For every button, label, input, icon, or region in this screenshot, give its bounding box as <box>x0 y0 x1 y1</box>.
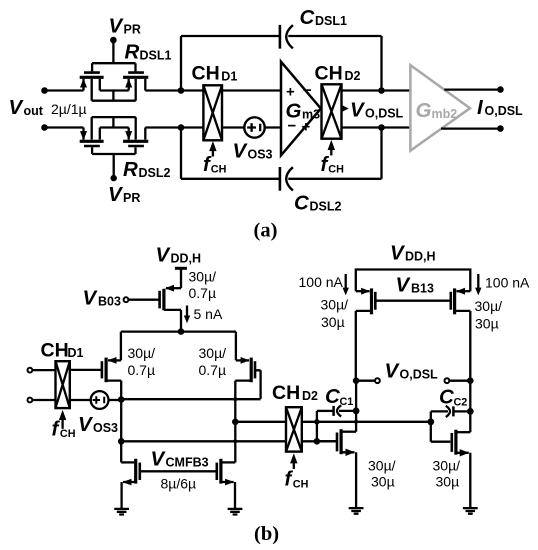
svg-text:30µ/: 30µ/ <box>321 297 349 313</box>
svg-text:(a): (a) <box>254 220 278 242</box>
node Vout terminal top <box>41 87 48 94</box>
node feedback junction bottom <box>378 124 385 131</box>
chopper CHD1 panel b <box>56 361 70 408</box>
node input terminal bottom panel b <box>28 398 56 403</box>
resistor RDSL1 pseudo-resistor transistor pair <box>80 63 149 100</box>
label VOS3 panel a <box>233 140 273 163</box>
label CC1 <box>325 385 353 408</box>
label M7b size 30u/30u <box>475 298 503 332</box>
svg-text:B03: B03 <box>98 295 121 309</box>
label RDSL2 <box>123 158 171 181</box>
wire left vertical to CMFB <box>120 400 122 463</box>
wire bottom input left segment <box>45 126 84 128</box>
wire Gmb2 out bottom <box>441 127 500 129</box>
capacitor CC1 <box>317 405 356 416</box>
svg-text:R: R <box>123 158 138 181</box>
svg-text:mb2: mb2 <box>432 107 458 121</box>
node VODSL left terminal <box>356 378 380 383</box>
label M8b size 30u/30u <box>433 458 461 490</box>
wire CC2 riser <box>430 411 432 441</box>
node CC1 riser bottom junction <box>314 438 321 445</box>
wire top PR middle node bracket <box>100 91 129 101</box>
wire bottom input right segment <box>145 126 203 128</box>
svg-text:CH: CH <box>41 340 69 362</box>
transistor M7a pmos 100nA left <box>356 288 376 381</box>
chopper CHD2 panel b <box>286 407 302 451</box>
svg-text:V: V <box>156 244 172 267</box>
node crossing bump lower <box>233 439 237 443</box>
svg-text:CH: CH <box>272 382 300 404</box>
svg-text:C1: C1 <box>340 396 354 408</box>
wire VOS3 to Gm3 <box>265 126 281 128</box>
node IODSL terminal bottom <box>497 125 504 132</box>
transistor MB03 pmos <box>128 285 181 332</box>
wire mid vertical <box>234 400 236 463</box>
node IODSL terminal top <box>497 86 504 93</box>
label VCMFB3 <box>151 448 209 471</box>
source VOS3 offset panel b <box>70 391 121 409</box>
svg-text:D2: D2 <box>302 389 318 403</box>
svg-text:C2: C2 <box>454 396 468 408</box>
label M3a size 30u/0.7u <box>128 345 156 378</box>
node CC2 long wire junction <box>427 418 434 425</box>
node CC1 right junction <box>353 408 360 415</box>
label CHD1 panel a <box>192 63 238 85</box>
svg-text:30µ: 30µ <box>371 474 395 490</box>
svg-text:+: + <box>286 84 295 101</box>
svg-text:V: V <box>396 274 412 297</box>
wire CC1 riser <box>316 411 318 441</box>
capacitor CDSL1 <box>280 25 293 49</box>
svg-text:V: V <box>109 15 125 38</box>
svg-text:(b): (b) <box>254 523 279 545</box>
transistor M8a nmos output left <box>317 429 356 507</box>
label M7a size 30u/30u <box>321 297 349 331</box>
wire CDSL1 left <box>181 35 279 37</box>
label VOS3 panel b <box>78 413 118 436</box>
wire top input right segment <box>145 89 203 91</box>
svg-text:100 nA: 100 nA <box>299 274 344 290</box>
label VDDH left <box>156 244 202 267</box>
wire CHD1 to Gm3 top <box>222 89 281 91</box>
transistor M5b nmos CMFB right <box>217 459 236 509</box>
ground M8a <box>349 508 364 514</box>
svg-text:V: V <box>390 242 406 265</box>
ground M8b <box>463 508 478 514</box>
wire tail rail <box>121 332 236 361</box>
wire feedback riser top <box>180 36 182 91</box>
wire VDDH rail right block <box>356 270 471 292</box>
label fCH arrow panel a right <box>321 140 345 176</box>
node output direction arrow <box>342 105 349 112</box>
svg-text:5 nA: 5 nA <box>194 306 223 322</box>
svg-text:2µ/1µ: 2µ/1µ <box>51 101 87 117</box>
svg-text:DD,H: DD,H <box>171 252 202 266</box>
svg-text:CMFB3: CMFB3 <box>166 456 209 470</box>
node VODSL left junction <box>353 377 360 384</box>
node feedback junction top <box>378 87 385 94</box>
wire CDSL1 right <box>288 36 381 91</box>
label CC2 <box>439 386 467 409</box>
label IODSL <box>477 96 523 119</box>
svg-text:DSL2: DSL2 <box>310 200 342 214</box>
op-amp Gmb2 gray <box>410 65 470 151</box>
svg-text:30µ/: 30µ/ <box>475 298 503 314</box>
svg-text:V: V <box>9 96 25 119</box>
ground CMFB left <box>114 509 129 515</box>
svg-text:DSL1: DSL1 <box>315 14 347 28</box>
wire right column down <box>469 381 471 433</box>
label 100nA left <box>299 274 349 295</box>
svg-text:DSL1: DSL1 <box>140 49 172 63</box>
svg-text:CH: CH <box>293 478 309 490</box>
label VODSL panel a <box>350 99 404 122</box>
label CDSL2 <box>294 192 342 215</box>
svg-text:O,DSL: O,DSL <box>400 368 439 382</box>
label fCH arrow panel b right <box>285 453 309 490</box>
svg-text:100 nA: 100 nA <box>485 275 530 291</box>
resistor RDSL2 pseudo-resistor transistor pair <box>80 117 149 154</box>
label VODSL panel b <box>385 360 439 383</box>
node left output junction <box>118 396 125 403</box>
svg-text:CH: CH <box>315 62 343 84</box>
node Vout terminal bottom <box>41 124 48 131</box>
transistor M3a pmos diff left <box>70 357 121 400</box>
node VODSL right junction <box>467 377 474 384</box>
svg-text:30µ/: 30µ/ <box>199 345 227 361</box>
svg-text:PR: PR <box>123 191 140 205</box>
svg-text:0.7µ: 0.7µ <box>189 285 217 301</box>
wire CHD2 out bottom <box>342 126 411 128</box>
wire bottom PR middle node bracket <box>100 117 129 127</box>
svg-text:30µ/: 30µ/ <box>189 269 217 285</box>
svg-text:V: V <box>78 413 94 436</box>
svg-text:V: V <box>151 448 167 471</box>
svg-text:C: C <box>294 192 310 215</box>
node CC1 riser top junction <box>314 419 319 424</box>
svg-text:V: V <box>108 183 124 206</box>
node input terminal top panel b <box>28 368 56 373</box>
wire CDSL2 right <box>288 128 381 179</box>
label VPR top <box>109 15 141 38</box>
transistor M8b nmos output right <box>431 430 471 508</box>
svg-text:m3: m3 <box>302 108 320 122</box>
svg-text:30µ: 30µ <box>321 314 345 330</box>
svg-text:30µ/: 30µ/ <box>368 458 396 474</box>
svg-text:DD,H: DD,H <box>405 250 436 264</box>
label fCH arrow panel a left <box>203 141 227 176</box>
ground CMFB right <box>228 509 243 515</box>
svg-text:V: V <box>83 287 99 310</box>
svg-text:30µ: 30µ <box>436 474 460 490</box>
chopper CHD1 panel a <box>203 85 222 140</box>
source VOS3 offset panel a <box>244 117 264 137</box>
wire feedback riser bottom <box>180 128 182 179</box>
svg-text:CH: CH <box>211 164 227 176</box>
svg-text:CH: CH <box>192 63 220 85</box>
wire VB13 gate <box>375 300 451 302</box>
svg-text:D1: D1 <box>221 69 237 83</box>
label Vout <box>9 96 44 119</box>
label VPR bottom <box>108 183 140 206</box>
node feedback tap bottom <box>178 124 185 131</box>
label RDSL1 <box>125 41 172 64</box>
op-amp Gm3 <box>281 62 321 156</box>
svg-text:out: out <box>24 104 44 118</box>
node VPR top <box>110 37 117 64</box>
label 5nA arrow <box>184 306 223 324</box>
node VPR bottom <box>111 154 117 181</box>
wire to CHD2 top input <box>235 421 286 423</box>
wire left column down <box>355 381 357 432</box>
svg-text:I: I <box>477 96 484 119</box>
node feedback tap top <box>178 87 185 94</box>
label fCH arrow panel b left <box>52 410 76 441</box>
label VDDH right <box>390 242 436 265</box>
svg-text:G: G <box>286 100 302 123</box>
svg-text:CH: CH <box>328 164 344 176</box>
label 100nA right <box>475 274 530 295</box>
label CHD1 panel b <box>41 340 84 362</box>
capacitor CC2 <box>431 406 471 417</box>
svg-text:C: C <box>300 6 316 29</box>
transistor M3b pmos diff right <box>235 357 260 400</box>
svg-text:V: V <box>350 99 366 122</box>
svg-text:8µ/6µ: 8µ/6µ <box>161 476 197 492</box>
label VB03 <box>83 287 121 310</box>
wire left output node to right fet <box>121 398 260 400</box>
transistor M7b pmos 100nA right <box>451 288 471 381</box>
svg-text:DSL2: DSL2 <box>139 166 171 180</box>
svg-text:PR: PR <box>124 23 141 37</box>
label CHD2 panel b <box>272 382 318 404</box>
svg-text:0.7µ: 0.7µ <box>199 362 227 378</box>
wire CHD2 out top long <box>302 421 431 423</box>
wire CHD2 out bottom <box>302 440 336 442</box>
label VB13 <box>396 274 434 297</box>
svg-text:B13: B13 <box>411 282 434 296</box>
chopper CHD2 panel a <box>322 84 342 138</box>
capacitor CDSL2 <box>280 167 293 191</box>
node VB03 terminal <box>124 297 129 302</box>
svg-text:V: V <box>385 360 401 383</box>
svg-text:D1: D1 <box>68 346 84 360</box>
wire CMFB gate <box>140 470 217 472</box>
label M3b size 30u/0.7u <box>199 345 227 378</box>
wire Gmb2 out top <box>444 88 500 90</box>
svg-text:O,DSL: O,DSL <box>485 104 524 118</box>
svg-text:−: − <box>303 82 312 99</box>
svg-text:CH: CH <box>60 428 76 440</box>
label CHD2 panel a <box>315 62 361 84</box>
wire top input left segment <box>45 89 84 91</box>
svg-text:30µ/: 30µ/ <box>128 345 156 361</box>
svg-text:O,DSL: O,DSL <box>365 107 404 121</box>
node crossing bump upper <box>233 397 237 401</box>
node CMFB left junction <box>118 438 125 445</box>
svg-text:OS3: OS3 <box>93 421 118 435</box>
svg-text:D2: D2 <box>345 69 361 83</box>
wire CDSL2 left <box>181 178 279 180</box>
label CDSL1 <box>300 6 348 29</box>
svg-text:G: G <box>416 99 432 122</box>
node VODSL right terminal <box>445 378 471 383</box>
wire CHD1 to VOS3 bottom <box>222 126 244 128</box>
svg-text:OS3: OS3 <box>248 148 273 162</box>
svg-text:30µ/: 30µ/ <box>433 458 461 474</box>
node tail junction <box>178 328 185 335</box>
label M8a size 30u/30u <box>368 458 396 490</box>
label MB03 size 30u/0.7u <box>189 269 217 302</box>
svg-text:V: V <box>233 140 249 163</box>
wire to CHD2 bottom input <box>121 440 286 442</box>
node CC2 right junction <box>467 408 474 415</box>
node CHD2 top input junction <box>232 419 239 426</box>
power VDDH bar left <box>175 268 187 288</box>
transistor M5a nmos CMFB left <box>121 459 140 509</box>
svg-text:30µ: 30µ <box>475 316 499 332</box>
wire CHD2 out top <box>342 89 411 91</box>
svg-text:R: R <box>125 41 140 64</box>
node crossing bump right <box>354 420 358 424</box>
svg-text:0.7µ: 0.7µ <box>128 362 156 378</box>
